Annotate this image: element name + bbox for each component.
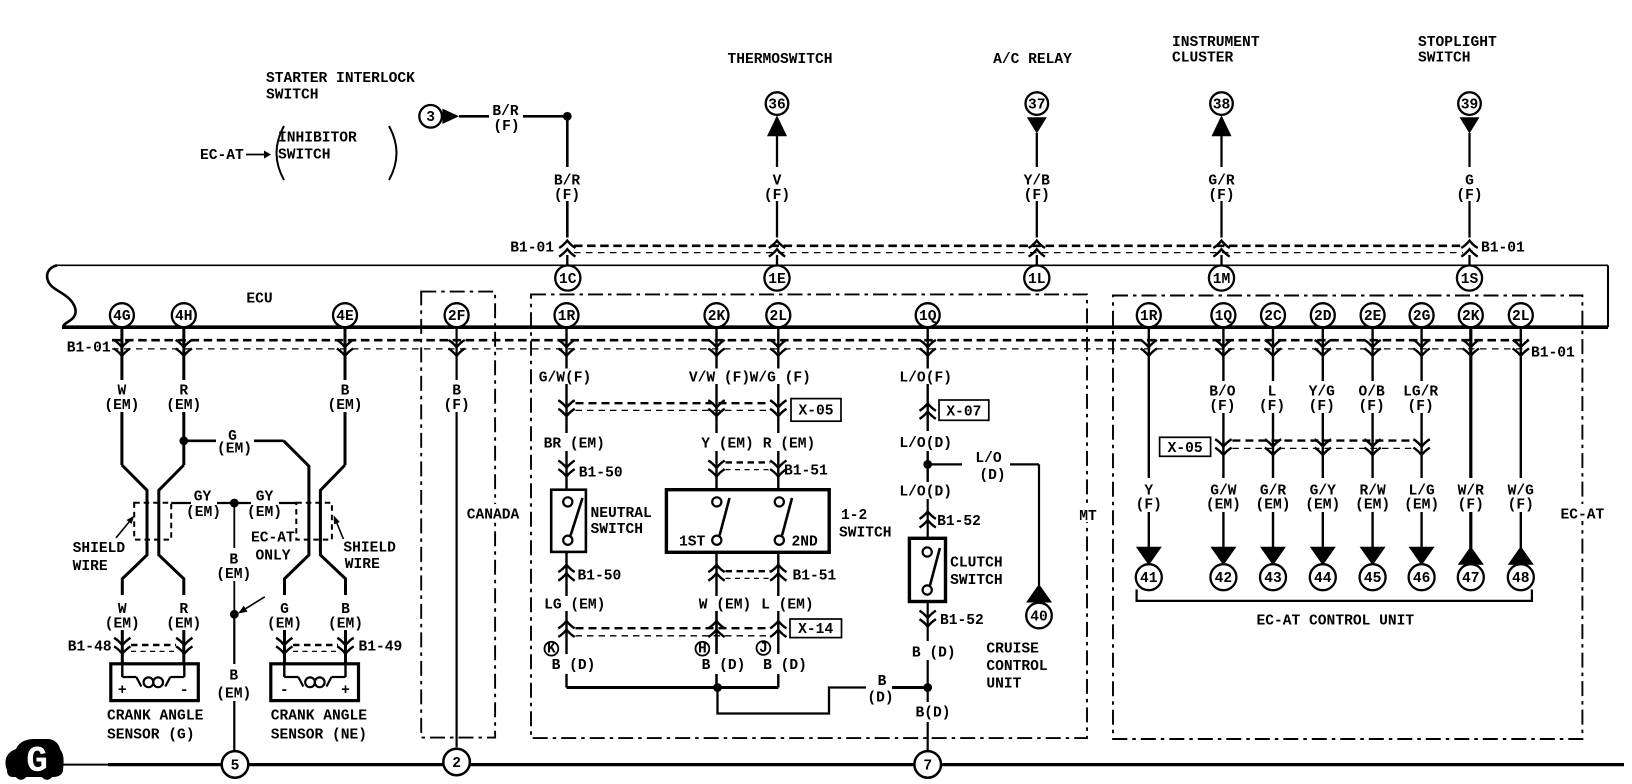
svg-text:B: B bbox=[229, 669, 238, 685]
wire B (EM) shield drain down bbox=[233, 503, 235, 614]
svg-text:1R: 1R bbox=[1140, 309, 1158, 325]
svg-text:B1-51: B1-51 bbox=[793, 568, 837, 584]
connector B1-52 lower chevrons bbox=[920, 611, 936, 627]
wire into EC-AT control unit pin 46 bbox=[1420, 512, 1422, 548]
svg-text:B(D): B(D) bbox=[915, 706, 950, 722]
ECU main bus line bbox=[62, 325, 1608, 329]
EC-AT control unit connector circle 44 bbox=[1310, 564, 1336, 590]
wire to clutch switch bbox=[927, 499, 929, 538]
svg-text:4E: 4E bbox=[336, 309, 354, 325]
label V (F) bbox=[764, 174, 790, 205]
svg-text:1Q: 1Q bbox=[1215, 309, 1233, 325]
connector X-07 label box bbox=[939, 400, 989, 421]
svg-text:(EM): (EM) bbox=[267, 616, 302, 632]
arrow down into pin 41 bbox=[1136, 547, 1162, 565]
svg-text:-: - bbox=[180, 683, 189, 699]
wire into EC-AT control unit pin 45 bbox=[1371, 512, 1373, 548]
svg-text:B (D): B (D) bbox=[912, 645, 956, 661]
svg-text:B1-01: B1-01 bbox=[510, 241, 554, 257]
connector B1-01 chevrons on wire 2E bbox=[1364, 340, 1380, 356]
svg-text:44: 44 bbox=[1314, 571, 1332, 587]
label B (D) mid bbox=[867, 674, 893, 707]
arrow up to cruise control unit bbox=[1026, 584, 1052, 603]
crank angle sensor (G) box with pickup coil bbox=[111, 664, 199, 701]
1-2 switch contact 2ND bbox=[775, 497, 792, 545]
svg-text:WIRE: WIRE bbox=[345, 557, 380, 573]
svg-text:(F): (F) bbox=[1208, 188, 1234, 204]
label CRANK ANGLE SENSOR (G) bbox=[107, 709, 204, 744]
label G (EM) branch bbox=[217, 429, 252, 458]
ECU bus pin 2E at x=1372.6 bbox=[1361, 303, 1385, 327]
wire segment to X-05 (2K) bbox=[715, 384, 717, 433]
svg-text:B: B bbox=[878, 674, 887, 690]
ECU pin 1M bbox=[1209, 265, 1234, 290]
arrow down into pin 42 bbox=[1210, 547, 1236, 565]
svg-text:L (EM): L (EM) bbox=[761, 597, 814, 613]
arrow up to instrument cluster bbox=[1212, 115, 1232, 136]
svg-text:J: J bbox=[759, 641, 768, 657]
connector B1-51 upper chevrons bbox=[708, 461, 786, 477]
label G (EM) lower bbox=[267, 602, 302, 632]
1-2 switch box bbox=[666, 490, 829, 553]
wire LG (EM) down bbox=[565, 611, 567, 688]
wire B (D) ground link (K-H-J) bbox=[567, 686, 779, 689]
svg-text:A/C RELAY: A/C RELAY bbox=[993, 52, 1072, 68]
stoplight switch connector circle 39 bbox=[1458, 92, 1481, 115]
svg-text:X-07: X-07 bbox=[946, 405, 981, 421]
connector B1-01 chevrons at pin 1E wire bbox=[769, 241, 785, 257]
svg-text:GY: GY bbox=[194, 489, 212, 505]
wire G/W(F) from pin 1R bbox=[565, 327, 567, 369]
connector B1-01 chevrons at pin 1S wire bbox=[1461, 241, 1477, 257]
wire L/O(D) bbox=[927, 451, 929, 482]
clutch switch box bbox=[909, 538, 945, 601]
label LG/R (F) bbox=[1403, 385, 1438, 415]
label W/R (F) bbox=[1458, 484, 1485, 514]
EC-AT control unit bracket bbox=[1137, 590, 1532, 601]
connector circle 3 (starter interlock switch) bbox=[419, 105, 442, 128]
wire Y (F) from right pin 1R bbox=[1148, 327, 1150, 478]
junction node clutch/ground bbox=[923, 683, 932, 692]
wire Y/B (F) A/C relay bbox=[1036, 133, 1038, 266]
instrument cluster connector circle 38 bbox=[1210, 92, 1233, 115]
svg-text:CRANK ANGLE: CRANK ANGLE bbox=[107, 709, 204, 725]
label W/G (F) bbox=[1508, 484, 1535, 514]
wire BR (EM) to neutral switch bbox=[565, 451, 567, 490]
svg-text:1E: 1E bbox=[768, 272, 786, 288]
node J bbox=[757, 641, 771, 657]
connector B1-01 chevrons at pin 1M wire bbox=[1213, 241, 1229, 257]
svg-text:(F): (F) bbox=[1458, 498, 1484, 514]
connector X-05 chevrons (EC-AT side) bbox=[1215, 439, 1430, 455]
connector B1-01 chevrons on wire 1R bbox=[558, 340, 574, 356]
svg-text:SENSOR (NE): SENSOR (NE) bbox=[271, 727, 367, 743]
ECU pin 1S bbox=[1457, 265, 1482, 290]
ECU bus pin 4E at x=345 bbox=[333, 303, 357, 327]
harness B1-01 dashed pair (bus level) bbox=[112, 340, 1528, 349]
connector B1-49 dashed link bbox=[293, 645, 338, 651]
svg-text:B1-01: B1-01 bbox=[67, 341, 111, 357]
connector B1-01 chevrons on wire 4E bbox=[337, 340, 353, 356]
svg-text:CANADA: CANADA bbox=[467, 508, 520, 524]
wire Y (EM) to 1-2 switch bbox=[715, 451, 717, 490]
neutral switch contacts bbox=[563, 497, 582, 545]
ECU bus pin 2D at x=1322.8 bbox=[1311, 303, 1335, 327]
svg-text:SWITCH: SWITCH bbox=[1418, 51, 1471, 67]
label SHIELD WIRE left with arrow bbox=[73, 515, 135, 575]
svg-text:X-05: X-05 bbox=[798, 404, 833, 420]
shield wire box (right, crank angle sensor NE) bbox=[296, 503, 332, 540]
svg-text:7: 7 bbox=[923, 759, 932, 775]
svg-text:(EM): (EM) bbox=[1255, 498, 1290, 514]
svg-text:UNIT: UNIT bbox=[986, 677, 1021, 693]
ground node circle 2 bbox=[443, 749, 470, 776]
svg-text:1C: 1C bbox=[559, 272, 577, 288]
svg-text:(F): (F) bbox=[443, 398, 469, 414]
label Y (F) bbox=[1136, 484, 1162, 514]
svg-text:2L: 2L bbox=[1512, 309, 1530, 325]
svg-text:2F: 2F bbox=[448, 309, 466, 325]
connector B1-01 chevrons on wire 1R bbox=[1141, 340, 1157, 356]
EC-AT control unit connector circle 42 bbox=[1210, 564, 1236, 590]
arrow down into pin 46 bbox=[1409, 547, 1435, 565]
arrow up to thermoswitch bbox=[767, 115, 787, 136]
svg-text:STARTER INTERLOCK: STARTER INTERLOCK bbox=[266, 71, 415, 87]
svg-text:48: 48 bbox=[1512, 571, 1530, 587]
svg-text:B (D): B (D) bbox=[552, 658, 596, 674]
label Y/G (F) bbox=[1309, 385, 1336, 415]
wire W/G (F) from pin 2L bbox=[777, 327, 779, 369]
EC-AT control unit connector circle 43 bbox=[1260, 564, 1286, 590]
connector B1-52 upper chevrons bbox=[920, 512, 936, 528]
wire G/R (F) instrument cluster bbox=[1220, 136, 1222, 266]
ECU bus pin 2L at x=778.3 bbox=[766, 303, 790, 327]
svg-text:45: 45 bbox=[1364, 571, 1382, 587]
junction node GY to drain bbox=[230, 499, 239, 508]
ECU pin 1L bbox=[1024, 265, 1049, 290]
wire W (EM) below 1-2 switch bbox=[715, 552, 717, 687]
svg-text:(EM): (EM) bbox=[166, 398, 201, 414]
svg-text:CLUTCH: CLUTCH bbox=[950, 555, 1003, 571]
svg-text:GY: GY bbox=[256, 489, 274, 505]
svg-text:ECU: ECU bbox=[246, 292, 272, 308]
label O/B (F) bbox=[1358, 385, 1385, 415]
wire L/O(F) from pin 1Q bbox=[927, 327, 929, 369]
label R (EM) upper bbox=[166, 384, 201, 414]
MT option box bbox=[531, 294, 1099, 738]
label L (F) bbox=[1259, 385, 1285, 415]
svg-text:B (D): B (D) bbox=[763, 658, 807, 674]
connector B1-50 lower chevrons bbox=[558, 565, 574, 581]
svg-text:G: G bbox=[26, 741, 48, 782]
svg-text:(F): (F) bbox=[493, 119, 519, 135]
label G/Y (EM) bbox=[1305, 484, 1340, 514]
svg-text:EC-AT: EC-AT bbox=[251, 531, 295, 547]
svg-text:(EM): (EM) bbox=[328, 616, 363, 632]
svg-text:(F): (F) bbox=[554, 188, 580, 204]
svg-text:X-05: X-05 bbox=[1168, 441, 1203, 457]
ground node circle 7 bbox=[914, 751, 941, 778]
label L/G (EM) bbox=[1404, 484, 1439, 514]
arrow down from stoplight switch bbox=[1460, 117, 1480, 133]
svg-text:+: + bbox=[341, 683, 350, 699]
wire below clutch switch bbox=[927, 602, 929, 688]
wire GY (EM) shield drain link bbox=[171, 502, 296, 504]
label CRANK ANGLE SENSOR (NE) bbox=[271, 709, 368, 744]
svg-text:(F): (F) bbox=[1209, 399, 1235, 415]
label B (EM) lower bbox=[328, 602, 363, 632]
svg-text:SWITCH: SWITCH bbox=[591, 522, 644, 538]
connector B1-01 chevrons on wire 2K bbox=[1463, 340, 1479, 356]
ECU bus pin 2K at x=1470.8 bbox=[1459, 303, 1483, 327]
svg-text:SENSOR (G): SENSOR (G) bbox=[107, 727, 195, 743]
connector B1-01 chevrons at pin 1C wire bbox=[559, 241, 575, 257]
node EC-AT only junction bbox=[230, 610, 239, 619]
svg-text:B1-49: B1-49 bbox=[359, 639, 403, 655]
connector X-05 dashed link (MT) bbox=[576, 403, 771, 410]
connector X-14 dashed link bbox=[576, 628, 771, 636]
svg-text:43: 43 bbox=[1264, 571, 1282, 587]
connector B1-01 chevrons on wire 2C bbox=[1265, 340, 1281, 356]
svg-text:(EM): (EM) bbox=[1404, 498, 1439, 514]
svg-text:(EM): (EM) bbox=[105, 616, 140, 632]
wire R (EM) to 1-2 switch bbox=[777, 451, 779, 490]
svg-text:(F): (F) bbox=[764, 188, 790, 204]
wire into EC-AT control unit pin 47 bbox=[1469, 512, 1472, 548]
svg-text:WIRE: WIRE bbox=[73, 559, 108, 575]
svg-text:4H: 4H bbox=[175, 309, 193, 325]
svg-text:CLUSTER: CLUSTER bbox=[1172, 51, 1234, 67]
ECU bus pin 1Q at x=927.7 bbox=[916, 303, 940, 327]
svg-text:(EM): (EM) bbox=[216, 567, 251, 583]
svg-text:2ND: 2ND bbox=[792, 535, 819, 551]
ground bus wire bbox=[63, 764, 1624, 766]
label B (F) bbox=[443, 384, 469, 414]
connector X-05 chevrons (MT) bbox=[558, 400, 786, 416]
label B/O (F) bbox=[1209, 385, 1236, 415]
ECU bus pin 4G at x=121.9 bbox=[110, 303, 134, 327]
connector B1-01 chevrons on wire 2F bbox=[448, 340, 464, 356]
svg-text:(D): (D) bbox=[979, 468, 1005, 484]
svg-text:B1-50: B1-50 bbox=[579, 465, 623, 481]
connector X-14 label box bbox=[790, 619, 842, 638]
svg-text:L/O(D): L/O(D) bbox=[899, 436, 952, 452]
EC-AT control unit connector circle 47 bbox=[1458, 564, 1484, 590]
svg-text:SWITCH: SWITCH bbox=[839, 525, 892, 541]
EC-AT inhibitor switch note bbox=[200, 126, 397, 180]
label B (EM) drain bbox=[216, 552, 251, 582]
svg-text:(EM): (EM) bbox=[186, 505, 221, 521]
svg-text:SHIELD: SHIELD bbox=[73, 541, 126, 557]
svg-text:W/G (F): W/G (F) bbox=[750, 370, 811, 386]
svg-text:B1-52: B1-52 bbox=[937, 514, 981, 530]
arrow down into pin 43 bbox=[1260, 547, 1286, 565]
ECU bus pin 2L at x=1520.8 bbox=[1509, 303, 1533, 327]
label SHIELD WIRE right with arrow bbox=[334, 515, 397, 573]
svg-text:CRUISE: CRUISE bbox=[986, 642, 1039, 658]
wire G (EM) branch to NE sensor shield pair bbox=[184, 441, 309, 664]
svg-text:B1-51: B1-51 bbox=[784, 464, 828, 480]
svg-text:(F): (F) bbox=[1259, 399, 1285, 415]
svg-text:L/O(D): L/O(D) bbox=[899, 485, 952, 501]
wire below neutral switch bbox=[565, 552, 567, 596]
connector B1-01 chevrons on wire 2D bbox=[1315, 340, 1331, 356]
wire into EC-AT control unit pin 41 bbox=[1148, 512, 1150, 548]
neutral switch box bbox=[551, 490, 586, 552]
connector B1-01 chevrons on wire 2G bbox=[1413, 340, 1429, 356]
svg-text:2G: 2G bbox=[1413, 309, 1431, 325]
svg-text:SWITCH: SWITCH bbox=[266, 88, 319, 104]
ECU pin 1E bbox=[764, 265, 789, 290]
svg-text:5: 5 bbox=[231, 759, 240, 775]
svg-text:MT: MT bbox=[1079, 509, 1097, 525]
wire into EC-AT control unit pin 43 bbox=[1272, 512, 1274, 548]
EC-AT control unit connector circle 45 bbox=[1360, 564, 1386, 590]
connector B1-01 chevrons at pin 1L wire bbox=[1029, 241, 1045, 257]
svg-text:1M: 1M bbox=[1213, 272, 1231, 288]
wire R (EM) from pin 4H bbox=[159, 327, 184, 664]
svg-text:(EM): (EM) bbox=[217, 442, 252, 458]
svg-text:38: 38 bbox=[1213, 97, 1231, 113]
cruise control connector circle 40 bbox=[1026, 603, 1052, 629]
arrow down into pin 44 bbox=[1310, 547, 1336, 565]
connector B1-01 chevrons on wire 2K bbox=[708, 340, 724, 356]
EC-AT control unit connector circle 41 bbox=[1136, 564, 1162, 590]
svg-text:LG (EM): LG (EM) bbox=[544, 597, 605, 613]
arrow up from pin 48 bbox=[1508, 546, 1534, 564]
wire W (EM) from pin 4G bbox=[122, 327, 147, 664]
svg-text:L/O(F): L/O(F) bbox=[899, 370, 952, 386]
svg-text:K: K bbox=[547, 641, 556, 657]
wire B (EM) from pin 4E bbox=[320, 327, 345, 664]
ECU bus pin 2F at x=456.6 bbox=[445, 303, 469, 327]
svg-text:2E: 2E bbox=[1364, 309, 1382, 325]
wire into EC-AT control unit pin 42 bbox=[1222, 512, 1224, 548]
svg-text:ONLY: ONLY bbox=[256, 549, 291, 565]
ECU bus pin 2K at x=716.5 bbox=[705, 303, 729, 327]
wire W/R (F) from right pin 2K bbox=[1469, 327, 1472, 478]
label R (EM) lower bbox=[166, 602, 201, 632]
label NEUTRAL SWITCH bbox=[591, 506, 652, 538]
svg-text:NEUTRAL: NEUTRAL bbox=[591, 506, 652, 522]
arrow down into pin 45 bbox=[1360, 547, 1386, 565]
svg-text:(F): (F) bbox=[1456, 188, 1482, 204]
EC-AT option box bbox=[1113, 296, 1606, 740]
connector B1-01 chevrons on wire 1Q bbox=[920, 340, 936, 356]
wire V/W (F) from pin 2K bbox=[715, 327, 717, 369]
connector X-05 dashed link (EC-AT side) bbox=[1232, 441, 1413, 449]
label L/O (D) branch bbox=[975, 451, 1005, 484]
junction node on B/R wire bbox=[563, 112, 572, 121]
connector B1-51 lower dashed link bbox=[726, 571, 771, 578]
ground node circle 5 bbox=[222, 751, 249, 778]
EC-AT control unit connector circle 46 bbox=[1409, 564, 1435, 590]
svg-text:+: + bbox=[118, 683, 127, 699]
svg-text:(F): (F) bbox=[1024, 188, 1050, 204]
stoplight switch label bbox=[1418, 35, 1497, 67]
label B (EM) bottom bbox=[216, 669, 251, 703]
arrow up from pin 47 bbox=[1458, 546, 1484, 564]
svg-text:B1-01: B1-01 bbox=[1481, 241, 1525, 257]
svg-text:SWITCH: SWITCH bbox=[950, 573, 1003, 589]
svg-text:1R: 1R bbox=[558, 309, 576, 325]
wire W/G (F) from right pin 2L bbox=[1520, 327, 1522, 478]
svg-text:INHIBITOR: INHIBITOR bbox=[278, 131, 357, 147]
wire Y/G (F) from right pin bbox=[1322, 327, 1324, 478]
connector B1-49 chevrons bbox=[276, 638, 354, 654]
connector X-07 chevrons bbox=[920, 403, 936, 419]
label B (EM) upper bbox=[327, 384, 362, 414]
svg-text:BR (EM): BR (EM) bbox=[544, 436, 605, 452]
svg-text:2K: 2K bbox=[1462, 309, 1480, 325]
svg-text:SWITCH: SWITCH bbox=[278, 148, 331, 164]
clutch switch contacts bbox=[923, 547, 940, 594]
1-2 switch contact 1ST bbox=[712, 497, 729, 545]
connector B1-01 chevrons on wire 2L bbox=[770, 340, 786, 356]
ECU bus pin 1R at x=566.5 bbox=[555, 303, 579, 327]
svg-text:B1-01: B1-01 bbox=[1531, 346, 1575, 362]
label W (EM) lower bbox=[105, 602, 140, 632]
svg-text:(F): (F) bbox=[1358, 399, 1384, 415]
ECU bus pin 2C at x=1273 bbox=[1261, 303, 1285, 327]
wire into EC-AT control unit pin 48 bbox=[1520, 512, 1522, 548]
svg-text:(EM): (EM) bbox=[216, 687, 251, 703]
svg-text:1-2: 1-2 bbox=[841, 508, 867, 524]
svg-text:39: 39 bbox=[1461, 97, 1479, 113]
connector B1-01 chevrons on wire 4G bbox=[114, 340, 130, 356]
svg-text:36: 36 bbox=[768, 97, 786, 113]
svg-text:-: - bbox=[280, 683, 289, 699]
svg-text:(EM): (EM) bbox=[104, 398, 139, 414]
wire B (D) down to ground bus bbox=[927, 688, 929, 752]
svg-text:EC-AT: EC-AT bbox=[200, 148, 244, 164]
connector B1-01 chevrons on wire 1Q bbox=[1215, 340, 1231, 356]
connector X-05 label box (MT) bbox=[791, 399, 841, 422]
svg-text:B/R: B/R bbox=[492, 104, 519, 120]
wire B/R (F) down to ECU pin 1C bbox=[566, 116, 569, 266]
label B/R (F) horizontal wire bbox=[492, 104, 519, 135]
svg-text:G/W(F): G/W(F) bbox=[539, 370, 592, 386]
connector B1-51 lower chevrons bbox=[708, 565, 786, 581]
svg-text:41: 41 bbox=[1140, 571, 1158, 587]
wire LG/R (F) from right pin bbox=[1420, 327, 1422, 478]
wire O/B (F) from right pin bbox=[1371, 327, 1373, 478]
ECU pin 1C bbox=[555, 265, 580, 290]
label G (F) bbox=[1456, 174, 1482, 205]
CANADA option box bbox=[421, 292, 522, 738]
svg-text:SHIELD: SHIELD bbox=[343, 540, 396, 556]
label CRUISE CONTROL UNIT bbox=[986, 642, 1047, 693]
wire into EC-AT control unit pin 44 bbox=[1322, 512, 1324, 548]
label G/W (EM) bbox=[1206, 484, 1241, 514]
svg-text:B1-52: B1-52 bbox=[940, 613, 984, 629]
svg-text:2: 2 bbox=[452, 756, 461, 772]
svg-text:B (D): B (D) bbox=[702, 658, 746, 674]
svg-text:H: H bbox=[698, 641, 707, 657]
ECU bus pin 1R at x=1148.8 bbox=[1137, 303, 1161, 327]
svg-text:1ST: 1ST bbox=[679, 535, 706, 551]
ECU box top edge with torn-paper left end bbox=[47, 265, 1608, 327]
svg-text:(EM): (EM) bbox=[1305, 498, 1340, 514]
connector B1-01 chevrons on wire 2L bbox=[1513, 340, 1529, 356]
svg-text:(EM): (EM) bbox=[1206, 498, 1241, 514]
label GY (EM) left bbox=[186, 489, 221, 521]
A/C relay connector circle 37 bbox=[1026, 92, 1049, 115]
wire V (F) thermoswitch bbox=[776, 136, 778, 266]
connector B1-01 chevrons on wire 4H bbox=[176, 340, 192, 356]
svg-text:B1-50: B1-50 bbox=[578, 568, 622, 584]
svg-text:37: 37 bbox=[1028, 97, 1046, 113]
